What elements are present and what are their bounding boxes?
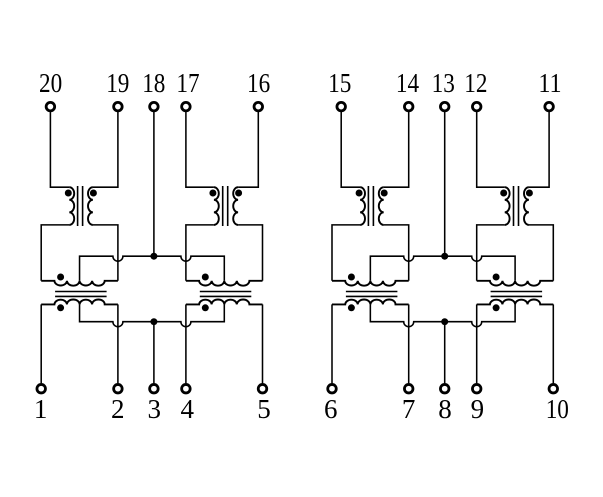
svg-text:13: 13 xyxy=(432,68,455,98)
pin 15 terminal xyxy=(337,102,346,111)
transformer T5 primary winding (pins 15-6 side) xyxy=(360,187,365,225)
wire pin 19 to T1 secondary xyxy=(93,112,118,187)
pin 20 terminal xyxy=(46,102,55,111)
transformer T6 core xyxy=(514,186,519,226)
svg-text:2: 2 xyxy=(111,394,125,424)
wire T5 secondary bottom to T7 right end xyxy=(384,225,409,281)
wire T8 bottom winding right end to pin 10 xyxy=(552,304,554,383)
wire pin 12 to T6 primary xyxy=(477,112,505,187)
wire T7 bottom winding right end to pin 7 xyxy=(408,304,410,383)
pin 13 terminal xyxy=(440,102,449,111)
wire T3 bottom winding right end to pin 2 xyxy=(117,304,119,383)
wire pin 11 to T6 secondary xyxy=(529,112,549,187)
svg-text:5: 5 xyxy=(257,394,271,424)
wire pin 16 to T2 secondary xyxy=(238,112,258,187)
pin 10 terminal xyxy=(549,384,558,393)
svg-text:17: 17 xyxy=(176,68,199,98)
wire T1 secondary bottom to T3 right end xyxy=(93,225,118,281)
wire T2 secondary bottom to T4 right end xyxy=(238,225,262,281)
transformer T7 core xyxy=(346,292,398,297)
wire centre-tap bus of T3 and T4 tops (node pin 18) xyxy=(80,256,225,281)
transformer T2 secondary winding xyxy=(233,187,238,225)
transformer T4 bottom winding xyxy=(186,300,263,305)
pin 1 terminal xyxy=(37,384,46,393)
polarity dot T5 primary xyxy=(356,190,363,197)
wire pin 17 to T2 primary xyxy=(186,112,214,187)
wire pin 18 to centre-tap bus xyxy=(153,112,155,256)
transformer T1 core xyxy=(78,186,83,226)
wire T7 bottom winding left end to pin 6 xyxy=(331,304,333,383)
polarity dot T6 secondary xyxy=(526,190,533,197)
transformer T8 bottom winding xyxy=(477,299,554,304)
pin 12 terminal xyxy=(472,102,481,111)
transformer T5 secondary winding xyxy=(379,187,384,225)
svg-text:7: 7 xyxy=(402,394,416,424)
pin 18 terminal xyxy=(150,102,159,111)
wire pin 8 to centre-tap bus xyxy=(444,322,446,384)
wire centre-tap bus of T3 and T4 bottoms (node pin 3) xyxy=(80,304,225,326)
wire pin 3 to centre-tap bus xyxy=(153,322,155,384)
transformer T4 core xyxy=(200,292,252,297)
polarity dot T2 primary xyxy=(209,190,216,197)
wire T4 bottom winding left end to pin 4 xyxy=(185,304,187,383)
wire pin 20 to T1 primary xyxy=(50,112,69,187)
transformer T2 core xyxy=(223,186,228,226)
polarity dot T5 secondary xyxy=(381,190,388,197)
svg-text:19: 19 xyxy=(106,68,129,98)
junction pin 8 node xyxy=(441,318,448,325)
polarity dot T1 secondary xyxy=(90,190,97,197)
transformer T8 top winding xyxy=(477,281,554,286)
junction pin 13 node xyxy=(441,253,448,260)
pin 6 terminal xyxy=(328,384,337,393)
polarity dot T8 bottom winding xyxy=(493,304,500,311)
svg-text:18: 18 xyxy=(142,68,165,98)
transformer T6 secondary winding xyxy=(524,187,529,225)
pin 14 terminal xyxy=(404,102,413,111)
polarity dot T3 bottom winding xyxy=(57,304,64,311)
junction pin 3 node xyxy=(150,318,157,325)
svg-text:12: 12 xyxy=(464,68,487,98)
polarity dot T2 secondary xyxy=(235,190,242,197)
wire T6 primary bottom to T8 left end xyxy=(477,225,505,281)
wire T8 bottom winding left end to pin 9 xyxy=(476,304,478,383)
polarity dot T4 top winding xyxy=(202,274,209,281)
pin 3 terminal xyxy=(150,384,159,393)
transformer T3 bottom winding xyxy=(41,299,118,304)
svg-text:11: 11 xyxy=(538,68,561,98)
svg-text:1: 1 xyxy=(34,394,48,424)
svg-text:14: 14 xyxy=(396,68,420,98)
polarity dot T6 primary xyxy=(500,190,507,197)
transformer T5 core xyxy=(368,186,373,226)
transformer T3 core xyxy=(55,292,107,297)
polarity dot T1 primary xyxy=(65,190,72,197)
transformer T6 primary winding (pins 12-9 side) xyxy=(505,187,510,225)
polarity dot T7 top winding xyxy=(348,274,355,281)
transformer T2 primary winding (pins 17-4 side) xyxy=(214,187,219,225)
svg-text:10: 10 xyxy=(546,394,569,424)
transformer T7 bottom winding xyxy=(332,299,409,304)
pin 16 terminal xyxy=(254,102,263,111)
pin 7 terminal xyxy=(404,384,413,393)
pin 9 terminal xyxy=(472,384,481,393)
pin 5 terminal xyxy=(258,384,267,393)
wire pin 14 to T5 secondary xyxy=(384,112,409,187)
pin 4 terminal xyxy=(182,384,191,393)
wire T4 bottom winding right end to pin 5 xyxy=(262,304,264,383)
svg-text:8: 8 xyxy=(438,394,452,424)
wire T6 secondary bottom to T8 right end xyxy=(529,225,553,281)
wire T1 primary bottom to T3 left end xyxy=(41,225,69,281)
svg-text:6: 6 xyxy=(324,394,338,424)
pin 11 terminal xyxy=(545,102,554,111)
pin 17 terminal xyxy=(182,102,191,111)
pin 8 terminal xyxy=(440,384,449,393)
polarity dot T3 top winding xyxy=(57,274,64,281)
svg-text:3: 3 xyxy=(147,394,161,424)
transformer T4 top winding xyxy=(186,281,263,286)
polarity dot T8 top winding xyxy=(493,274,500,281)
wire pin 13 to centre-tap bus xyxy=(444,112,446,256)
svg-text:20: 20 xyxy=(39,68,62,98)
transformer T1 primary winding (pins 20-1 side) xyxy=(69,187,74,225)
wire centre-tap bus of T7 and T8 tops (node pin 13) xyxy=(370,256,515,281)
wire T2 primary bottom to T4 left end xyxy=(186,225,214,281)
wire T5 primary bottom to T7 left end xyxy=(332,225,360,281)
svg-text:15: 15 xyxy=(328,68,351,98)
pin 19 terminal xyxy=(114,102,123,111)
svg-text:4: 4 xyxy=(181,394,195,424)
transformer T3 top winding xyxy=(41,281,118,286)
wire pin 15 to T5 primary xyxy=(341,112,360,187)
junction pin 18 node xyxy=(150,253,157,260)
svg-text:9: 9 xyxy=(471,394,485,424)
transformer T1 secondary winding xyxy=(88,187,93,225)
transformer T8 core xyxy=(491,292,542,297)
polarity dot T7 bottom winding xyxy=(348,304,355,311)
wire T3 bottom winding left end to pin 1 xyxy=(40,304,42,383)
transformer T7 top winding xyxy=(332,281,409,286)
pin 2 terminal xyxy=(114,384,123,393)
polarity dot T4 bottom winding xyxy=(202,304,209,311)
wire centre-tap bus of T7 and T8 bottoms (node pin 8) xyxy=(370,304,515,326)
svg-text:16: 16 xyxy=(247,68,270,98)
